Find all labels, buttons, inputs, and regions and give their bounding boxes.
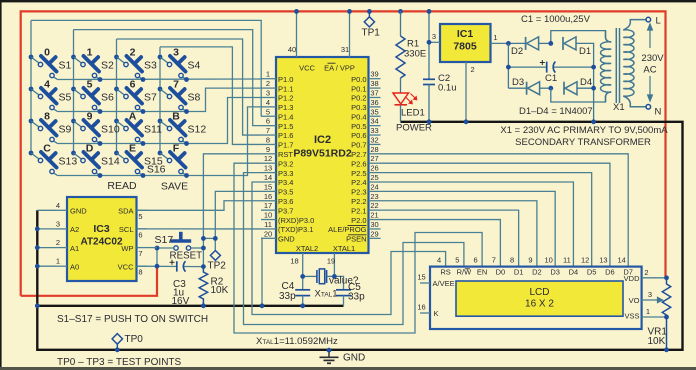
pin 5 IC2 left stub bbox=[261, 115, 276, 117]
junction row 1 col 2 bbox=[98, 77, 103, 82]
svg-text:D0: D0 bbox=[496, 268, 506, 277]
junction row 3 col 2 bbox=[98, 141, 103, 146]
switch S14 bbox=[71, 151, 100, 176]
svg-text:IC3: IC3 bbox=[93, 223, 110, 235]
pin 6 IC2 left stub bbox=[261, 125, 276, 127]
svg-text:35: 35 bbox=[370, 107, 378, 116]
pin 31 stub bbox=[349, 11, 351, 57]
svg-text:S8: S8 bbox=[188, 92, 201, 104]
svg-text:33p: 33p bbox=[348, 292, 365, 303]
svg-text:C: C bbox=[43, 143, 51, 155]
mains voltage arrow bbox=[648, 24, 653, 101]
svg-text:A2: A2 bbox=[70, 225, 79, 234]
crystal XTAL1 bbox=[303, 269, 335, 284]
wire pin15 branch to RST vertical bbox=[203, 237, 215, 239]
junction VCC rail pin40 bbox=[294, 9, 299, 14]
junction row 4 col 4 bbox=[184, 173, 189, 178]
pin 15 IC2 left stub bbox=[261, 190, 276, 192]
svg-text:19: 19 bbox=[327, 257, 335, 266]
terminal L bbox=[646, 17, 651, 22]
switch S10 bbox=[71, 119, 100, 144]
svg-text:3: 3 bbox=[56, 219, 60, 228]
junction VR1 top bbox=[664, 275, 669, 280]
wire R1 top bbox=[400, 11, 402, 36]
svg-text:P3.4: P3.4 bbox=[278, 178, 293, 187]
switch S13 bbox=[29, 151, 58, 176]
svg-text:S2: S2 bbox=[101, 60, 114, 72]
junction row 3 col 4 bbox=[184, 141, 189, 146]
pin 16 LCD K stub bbox=[420, 312, 430, 314]
pin 17 IC2 left stub bbox=[261, 209, 276, 211]
svg-text:RS: RS bbox=[440, 268, 450, 277]
terminal N bbox=[646, 105, 651, 110]
pin 1 IC1 stub bbox=[491, 42, 509, 44]
pin 24 IC2 right stub bbox=[369, 190, 381, 192]
svg-text:EA / VPP: EA / VPP bbox=[324, 64, 355, 73]
svg-text:7: 7 bbox=[173, 79, 179, 91]
svg-text:P0.1: P0.1 bbox=[351, 84, 366, 93]
svg-text:3: 3 bbox=[432, 32, 436, 41]
svg-text:5: 5 bbox=[138, 212, 142, 221]
svg-text:230V: 230V bbox=[641, 53, 664, 64]
pin 3 IC3 A2 bbox=[55, 228, 67, 230]
svg-text:26: 26 bbox=[370, 164, 378, 173]
svg-text:POWER: POWER bbox=[396, 123, 432, 134]
svg-text:D4: D4 bbox=[569, 268, 579, 277]
pin 21 IC2 right stub bbox=[369, 219, 381, 221]
junction S17 right on RST vertical bbox=[201, 246, 206, 251]
svg-text:P1.4: P1.4 bbox=[278, 112, 293, 121]
op IC1 7805 box bbox=[440, 24, 491, 62]
svg-text:A/VEE: A/VEE bbox=[433, 279, 455, 288]
diode D1 bbox=[563, 37, 576, 50]
switch S15 bbox=[114, 151, 143, 176]
svg-text:N: N bbox=[655, 107, 662, 118]
svg-text:D2: D2 bbox=[532, 268, 542, 277]
pin 15 LCD A/VEE stub bbox=[420, 282, 430, 284]
wire VCC red to IC3 bbox=[21, 266, 157, 296]
junction row 2 col 2 bbox=[98, 109, 103, 114]
wire bridge bottom row bbox=[508, 87, 526, 89]
svg-text:P89V51RD2: P89V51RD2 bbox=[293, 148, 352, 160]
svg-text:S14: S14 bbox=[101, 156, 120, 168]
pin 19 stub wire bbox=[334, 253, 343, 289]
diode D2 bbox=[526, 37, 539, 50]
svg-text:D3: D3 bbox=[512, 77, 524, 88]
pin 39 IC2 right stub bbox=[369, 78, 381, 80]
transformer X1 primary coil bbox=[623, 30, 634, 96]
switch S7 bbox=[114, 87, 143, 112]
svg-text:P1.2: P1.2 bbox=[278, 94, 293, 103]
svg-text:16 X 2: 16 X 2 bbox=[525, 299, 554, 310]
svg-text:16: 16 bbox=[417, 303, 425, 312]
wire P2.2 to LCD D2 bbox=[381, 201, 537, 267]
pin 8 IC3 VCC bbox=[137, 265, 148, 267]
wire P2.7 to LCD D7 bbox=[381, 154, 629, 267]
svg-text:S3: S3 bbox=[144, 60, 157, 72]
svg-text:PSEN: PSEN bbox=[346, 235, 366, 244]
svg-text:36: 36 bbox=[370, 98, 378, 107]
LED LED1 bbox=[393, 93, 417, 105]
svg-text:2: 2 bbox=[266, 79, 270, 88]
switch S2 bbox=[71, 55, 100, 80]
left border bbox=[0, 0, 2, 368]
svg-text:AC: AC bbox=[643, 65, 656, 76]
svg-text:8: 8 bbox=[510, 256, 514, 265]
junction row 4 col 3 bbox=[141, 173, 146, 178]
junction C1 left bbox=[506, 65, 511, 70]
wire P2.0 to LCD D0 bbox=[381, 220, 501, 267]
svg-text:20: 20 bbox=[264, 229, 272, 238]
svg-text:3: 3 bbox=[648, 290, 652, 299]
pin 4 IC3 GND bbox=[55, 209, 67, 211]
svg-text:XTAL2: XTAL2 bbox=[296, 244, 318, 253]
svg-text:SECONDARY TRANSFORMER: SECONDARY TRANSFORMER bbox=[515, 137, 651, 148]
svg-text:P1.6: P1.6 bbox=[278, 131, 293, 140]
junction VCC red branch bbox=[155, 264, 160, 269]
op LCD module box bbox=[430, 267, 642, 329]
wire P3.3 pin13 to LCD R/W bbox=[244, 173, 464, 325]
pin 34 IC2 right stub bbox=[369, 125, 381, 127]
junction ground branch corner bbox=[35, 303, 40, 308]
wire primary top lead to L bbox=[623, 20, 646, 30]
pin 35 IC2 right stub bbox=[369, 115, 381, 117]
svg-text:P0.2: P0.2 bbox=[351, 94, 366, 103]
pin 32 IC2 right stub bbox=[369, 143, 381, 145]
svg-text:RESET: RESET bbox=[170, 251, 203, 262]
junction WP node bbox=[155, 246, 160, 251]
svg-text:RST: RST bbox=[278, 150, 293, 159]
wire keypad column 1 to IC2 pin 5 bbox=[31, 20, 261, 116]
wire bridge top row bbox=[508, 42, 525, 44]
wire keypad column 2 to IC2 pin 6 bbox=[74, 30, 262, 126]
pin 18 stub wire bbox=[302, 253, 304, 289]
svg-text:IC1: IC1 bbox=[457, 28, 474, 40]
svg-text:P0.3: P0.3 bbox=[351, 103, 366, 112]
svg-text:P3.5: P3.5 bbox=[278, 188, 293, 197]
svg-text:S9: S9 bbox=[59, 124, 72, 136]
svg-text:(TXD)P3.1: (TXD)P3.1 bbox=[278, 225, 313, 234]
junction pin20 ground bbox=[260, 303, 265, 308]
svg-text:2: 2 bbox=[644, 268, 648, 277]
wire P2.1 to LCD D1 bbox=[381, 210, 519, 266]
svg-text:6: 6 bbox=[474, 256, 478, 265]
svg-text:7: 7 bbox=[266, 126, 270, 135]
svg-text:X1: X1 bbox=[613, 102, 625, 113]
wire P3.2 pin12 to LCD EN bbox=[234, 163, 482, 333]
pin 1 LCD VSS stub bbox=[642, 316, 667, 318]
pin 3 LCD VO stub bbox=[642, 299, 655, 301]
transformer X1 secondary coil bbox=[600, 42, 611, 92]
wire bridge AC top link bbox=[551, 31, 606, 44]
svg-text:P2.0: P2.0 bbox=[351, 216, 366, 225]
wire P3.5 pin15 to TP2 node bbox=[215, 191, 261, 250]
wire keypad column 1 bbox=[30, 20, 32, 153]
svg-text:P1.3: P1.3 bbox=[278, 103, 293, 112]
test point TP2 bbox=[210, 251, 220, 261]
svg-text:16V: 16V bbox=[172, 296, 190, 307]
svg-text:TP2: TP2 bbox=[208, 261, 227, 272]
svg-text:K: K bbox=[434, 309, 439, 318]
pin 16 IC2 left stub bbox=[261, 200, 276, 202]
svg-text:GND: GND bbox=[70, 207, 87, 216]
svg-text:29: 29 bbox=[370, 229, 378, 238]
svg-text:P0.6: P0.6 bbox=[351, 131, 366, 140]
pin 8 IC2 left stub bbox=[261, 143, 276, 145]
resistor R1 bbox=[396, 36, 405, 78]
junction C2 rail bbox=[427, 9, 432, 14]
pin 38 IC2 right stub bbox=[369, 87, 381, 89]
wire P2.5 to LCD D5 bbox=[381, 173, 592, 267]
svg-text:3: 3 bbox=[173, 47, 179, 59]
svg-text:VDD: VDD bbox=[624, 274, 640, 283]
svg-text:4: 4 bbox=[44, 79, 50, 91]
svg-text:33: 33 bbox=[370, 126, 378, 135]
pin 3 IC1 stub bbox=[429, 41, 440, 43]
resistor R2 bbox=[199, 267, 207, 306]
svg-text:P3.3: P3.3 bbox=[278, 169, 293, 178]
svg-text:34: 34 bbox=[370, 117, 378, 126]
svg-text:5: 5 bbox=[266, 107, 270, 116]
pin 4 IC2 left stub bbox=[261, 106, 276, 108]
svg-text:32: 32 bbox=[370, 135, 378, 144]
wire SDA riser to pin16 bbox=[137, 201, 261, 211]
svg-text:WP: WP bbox=[121, 244, 133, 253]
svg-text:D4: D4 bbox=[580, 77, 592, 88]
wire C4 to ground bbox=[302, 296, 304, 306]
pin 14 IC2 left stub bbox=[261, 181, 276, 183]
svg-text:38: 38 bbox=[370, 79, 378, 88]
svg-text:X1 = 230V AC PRIMARY TO 9V,500: X1 = 230V AC PRIMARY TO 9V,500mA bbox=[500, 125, 668, 136]
wire keypad column 2 bbox=[73, 30, 75, 153]
svg-text:S12: S12 bbox=[188, 124, 207, 136]
wire VCC red rail bbox=[21, 11, 666, 295]
svg-text:S11: S11 bbox=[144, 124, 162, 136]
svg-text:8: 8 bbox=[266, 135, 270, 144]
wire WP row bbox=[147, 247, 157, 249]
diode D4 bbox=[564, 82, 577, 95]
svg-text:12: 12 bbox=[581, 256, 589, 265]
svg-text:25: 25 bbox=[370, 173, 378, 182]
pin 33 IC2 right stub bbox=[369, 134, 381, 136]
svg-text:LED1: LED1 bbox=[401, 108, 425, 119]
capacitor C5 bbox=[336, 290, 351, 296]
svg-text:TP1: TP1 bbox=[362, 28, 381, 39]
svg-text:10: 10 bbox=[264, 211, 272, 220]
wire C5 to ground bbox=[343, 296, 345, 306]
svg-text:P0.0: P0.0 bbox=[351, 75, 366, 84]
svg-text:B: B bbox=[172, 111, 180, 123]
svg-text:D1: D1 bbox=[514, 268, 524, 277]
svg-text:SAVE: SAVE bbox=[161, 181, 188, 193]
svg-text:P1.1: P1.1 bbox=[278, 84, 293, 93]
junction IC1 pin3 C2 bbox=[427, 40, 432, 45]
svg-text:8: 8 bbox=[44, 111, 50, 123]
junction VR1 bottom bbox=[664, 315, 669, 320]
test point TP1 bbox=[364, 17, 374, 27]
svg-text:12: 12 bbox=[264, 154, 272, 163]
svg-text:33p: 33p bbox=[279, 291, 296, 302]
switch S12 bbox=[158, 119, 187, 144]
wire RST pin9 to reset circuit bbox=[203, 154, 261, 267]
junction row 4 col 2 bbox=[98, 173, 103, 178]
svg-text:VCC: VCC bbox=[299, 64, 315, 73]
pin 7 IC2 left stub bbox=[261, 134, 276, 136]
svg-text:15: 15 bbox=[417, 273, 425, 282]
junction row 3 col 3 bbox=[141, 141, 146, 146]
pin 37 IC2 right stub bbox=[369, 96, 381, 98]
svg-text:7: 7 bbox=[492, 256, 496, 265]
svg-text:S16: S16 bbox=[147, 164, 166, 176]
wire SCL to pin11 bbox=[137, 228, 261, 230]
wire bridge left vertical bbox=[507, 43, 509, 88]
svg-text:13: 13 bbox=[264, 164, 272, 173]
pin 22 IC2 right stub bbox=[369, 209, 381, 211]
svg-text:VCC: VCC bbox=[118, 262, 134, 271]
svg-text:VSS: VSS bbox=[624, 312, 639, 321]
svg-text:6: 6 bbox=[138, 230, 142, 239]
junction R2 bottom bbox=[201, 303, 206, 308]
pin 36 IC2 right stub bbox=[369, 106, 381, 108]
switch S11 bbox=[114, 119, 143, 144]
svg-text:P2.3: P2.3 bbox=[351, 188, 366, 197]
junction VCC rail pin31 bbox=[347, 9, 352, 14]
VR1 wiper arrow bbox=[655, 297, 663, 302]
pin 6 IC3 SCL bbox=[137, 228, 148, 230]
wire secondary top lead bbox=[606, 31, 612, 42]
svg-text:39: 39 bbox=[370, 70, 378, 79]
pin 3 IC2 left stub bbox=[261, 96, 276, 98]
wire S17 right contact bbox=[191, 247, 204, 249]
pin 2 IC3 A1 bbox=[55, 247, 67, 249]
pin 9 IC2 left stub bbox=[261, 153, 276, 155]
wire bridge AC bottom link bbox=[551, 88, 606, 102]
svg-text:C1: C1 bbox=[545, 73, 557, 84]
svg-text:11: 11 bbox=[563, 256, 571, 265]
svg-text:S5: S5 bbox=[59, 92, 72, 104]
svg-text:A1: A1 bbox=[70, 244, 79, 253]
svg-text:3: 3 bbox=[266, 88, 270, 97]
svg-text:22: 22 bbox=[370, 201, 378, 210]
switch S3 bbox=[114, 55, 143, 80]
svg-text:D1: D1 bbox=[579, 46, 591, 57]
svg-text:4: 4 bbox=[437, 256, 441, 265]
switch S17 bbox=[171, 232, 192, 250]
svg-text:30: 30 bbox=[370, 220, 378, 229]
svg-text:D5: D5 bbox=[587, 268, 597, 277]
pin 1 IC3 A0 bbox=[55, 265, 67, 267]
pin 1 IC2 left stub bbox=[261, 78, 276, 80]
wire keypad column 3 bbox=[116, 39, 118, 153]
svg-text:TP0: TP0 bbox=[125, 334, 144, 345]
svg-text:9: 9 bbox=[87, 111, 93, 123]
svg-text:P3.7: P3.7 bbox=[278, 206, 293, 215]
svg-text:28: 28 bbox=[370, 145, 378, 154]
svg-text:P1.5: P1.5 bbox=[278, 122, 293, 131]
wire primary bottom lead to N bbox=[623, 96, 646, 107]
svg-text:P3.6: P3.6 bbox=[278, 197, 293, 206]
svg-text:5: 5 bbox=[455, 256, 459, 265]
transformer X1 core bbox=[615, 28, 617, 103]
wire keypad column 3 to IC2 pin 7 bbox=[117, 39, 262, 135]
wire keypad row 1 to IC2 pin 1 bbox=[58, 78, 262, 81]
wire C1 row bbox=[508, 66, 546, 68]
svg-text:P0.4: P0.4 bbox=[351, 112, 366, 121]
wire P3.4 pin14 to LCD RS bbox=[252, 182, 446, 315]
pin 40 stub bbox=[296, 11, 298, 57]
test point TP0 bbox=[112, 334, 122, 345]
svg-text:LCD: LCD bbox=[529, 287, 549, 298]
svg-text:8: 8 bbox=[138, 268, 142, 277]
wire IC3 pin 4 to ground bbox=[37, 209, 55, 211]
capacitor C2 bbox=[423, 79, 435, 84]
wire keypad row 3 to IC2 pin 3 bbox=[58, 97, 262, 143]
wire keypad row 4 to IC2 pin 4 bbox=[58, 107, 262, 176]
svg-text:1: 1 bbox=[87, 47, 93, 59]
svg-text:17: 17 bbox=[264, 201, 272, 210]
svg-text:D: D bbox=[86, 143, 94, 155]
svg-text:F: F bbox=[173, 143, 180, 155]
svg-text:330E: 330E bbox=[404, 49, 426, 60]
wire keypad column 4 bbox=[159, 47, 161, 153]
switch S8 bbox=[158, 87, 187, 112]
wire P2.6 to LCD D6 bbox=[381, 163, 610, 266]
svg-text:2: 2 bbox=[130, 47, 136, 59]
wire S17 left contact bbox=[157, 248, 174, 266]
svg-text:S6: S6 bbox=[101, 92, 114, 104]
junction R2 top bbox=[201, 264, 206, 269]
wire R1 to LED1 bbox=[400, 78, 402, 93]
svg-text:IC2: IC2 bbox=[314, 134, 331, 146]
svg-text:VO: VO bbox=[629, 296, 640, 305]
svg-text:D1–D4 = 1N4007: D1–D4 = 1N4007 bbox=[519, 106, 593, 117]
svg-text:15: 15 bbox=[264, 182, 272, 191]
svg-text:21: 21 bbox=[370, 211, 378, 220]
pin 13 IC2 left stub bbox=[261, 172, 276, 174]
wire P2.4 to LCD D4 bbox=[381, 182, 574, 267]
svg-text:D3: D3 bbox=[550, 268, 560, 277]
svg-text:16: 16 bbox=[264, 192, 272, 201]
svg-text:7805: 7805 bbox=[453, 41, 477, 53]
svg-text:S17: S17 bbox=[155, 234, 174, 246]
potentiometer VR1 bbox=[662, 278, 670, 350]
svg-text:1: 1 bbox=[56, 257, 60, 266]
svg-text:AT24C02: AT24C02 bbox=[80, 237, 122, 248]
junction row 2 col 4 bbox=[184, 109, 189, 114]
svg-text:2: 2 bbox=[471, 65, 475, 74]
switch S6 bbox=[71, 87, 100, 112]
ground symbol bbox=[320, 350, 339, 363]
svg-text:P1.0: P1.0 bbox=[278, 75, 293, 84]
junction D2-D1 bbox=[548, 41, 553, 46]
wire ground bus bottom loop bbox=[37, 122, 682, 350]
svg-text:0: 0 bbox=[44, 47, 50, 59]
svg-text:A0: A0 bbox=[70, 262, 79, 271]
svg-text:13: 13 bbox=[599, 256, 607, 265]
svg-text:S1: S1 bbox=[59, 60, 72, 72]
svg-text:C1 = 1000u,25V: C1 = 1000u,25V bbox=[521, 14, 591, 25]
svg-text:SCL: SCL bbox=[119, 225, 134, 234]
wire secondary bottom lead bbox=[606, 92, 612, 102]
wire IC3 pin 1 to ground bbox=[37, 265, 55, 267]
svg-text:P2.6: P2.6 bbox=[351, 159, 366, 168]
wire keypad row 2 to IC2 pin 2 bbox=[58, 88, 262, 111]
op LCD screen bbox=[456, 281, 623, 316]
junction bridge left top bbox=[506, 41, 511, 46]
switch S16 bbox=[158, 151, 187, 176]
junction D3-D4 bbox=[548, 86, 553, 91]
svg-text:4: 4 bbox=[266, 98, 270, 107]
